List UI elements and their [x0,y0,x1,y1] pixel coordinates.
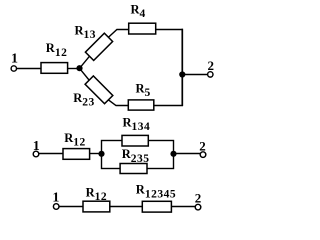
parallel loop wires [102,141,174,169]
node B junction dot [179,71,185,77]
node C junction dot [98,151,104,157]
resistor R134 [122,135,148,146]
resistor R23 (rotated body) [85,76,113,104]
wire R12 to node C [90,153,102,155]
wire R5 to right vertical [154,105,184,107]
terminal 2 (bottom) [195,204,201,210]
resistor R12 (bottom) [83,201,110,212]
svg-text:2: 2 [208,58,215,73]
resistor R4 [129,23,156,34]
terminal 1 (mid) [33,151,39,157]
terminal 1 (bottom) [53,204,59,210]
wire R12 to node A [68,68,80,70]
terminal 2 (mid) [200,152,206,158]
resistor R12 [41,63,68,74]
resistor R13 (rotated body) [85,33,112,60]
wire R12345 to terminal 2 (bottom) [171,206,195,208]
wire terminal1 to R12 (mid) [39,153,65,155]
svg-text:2: 2 [195,191,202,206]
resistor R235 [120,164,147,174]
resistor R5 [128,100,154,110]
wire right vertical [181,29,183,106]
wire node A diagonal up to corner (through R13) [80,30,130,69]
svg-text:1: 1 [52,190,59,205]
terminal 2 (top circuit) [208,72,213,77]
terminal 1 [11,66,16,71]
wire node B to terminal 2 [182,74,208,76]
node D junction dot [170,151,176,157]
wire terminal1 to R12 [16,68,42,70]
svg-text:1: 1 [33,139,40,154]
node A junction dot [76,65,82,71]
resistor R12345 [142,201,171,212]
svg-text:2: 2 [199,138,206,153]
wire R12 to R12345 [110,206,143,208]
resistor R12 (mid) [63,149,90,160]
wire node A diagonal down to corner (through R23) [80,68,130,105]
svg-text:1: 1 [11,52,18,67]
wire node D to terminal 2 (mid) [174,153,201,155]
wire R4 to right vertical [155,29,183,31]
wire terminal1 to R12 (bottom) [59,206,84,208]
